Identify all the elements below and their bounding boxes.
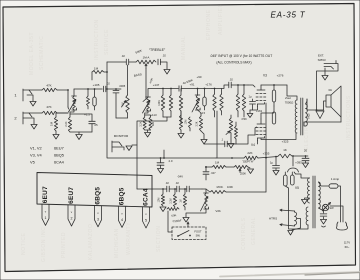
- svg-text:2.2K: 2.2K: [197, 121, 199, 126]
- switch SW: [319, 203, 344, 223]
- screen capsule V4: [272, 106, 275, 124]
- cathode V1b: [145, 111, 151, 117]
- svg-text:MODEL EA-35T: MODEL EA-35T: [29, 32, 35, 75]
- splitter resistor: [235, 118, 248, 144]
- stack resistor b: [220, 89, 223, 116]
- ground at J2: [23, 118, 37, 129]
- svg-text:+1.5: +1.5: [84, 113, 90, 117]
- svg-text:INSTRUCTION: INSTRUCTION: [94, 19, 100, 60]
- treble pot 1M-A: [135, 48, 166, 64]
- svg-text:100K: 100K: [227, 185, 233, 189]
- svg-text:V4: V4: [251, 143, 255, 147]
- V3 plate wire: [261, 85, 297, 100]
- filter cap 1u: [270, 156, 280, 170]
- depth pot: [226, 160, 254, 176]
- tube socket label 6BQ5 (4): [119, 187, 126, 205]
- cathode resistor V1b a: [140, 117, 147, 130]
- trem cap a: [165, 181, 169, 192]
- svg-text:+90: +90: [197, 75, 202, 79]
- resistor 1M trem: [205, 161, 226, 169]
- speaker: [326, 86, 341, 117]
- resistor 1M (tone): [92, 67, 108, 90]
- label +325: [282, 140, 289, 144]
- svg-text:V5: V5: [30, 160, 35, 165]
- svg-text:MANUAL: MANUAL: [181, 36, 187, 60]
- AC plug: [337, 222, 348, 230]
- svg-text:SERVICE: SERVICE: [104, 29, 110, 55]
- V4 plate wire: [261, 113, 296, 140]
- rectifier V5: [284, 155, 300, 190]
- stack resistor a: [213, 88, 216, 117]
- volume pot 500K: [179, 78, 193, 123]
- triode V1a: [68, 96, 77, 112]
- ground under V1a cathode: [76, 135, 82, 140]
- pilot lamp: [322, 204, 328, 210]
- wire: [129, 61, 136, 63]
- svg-text:MICHIGAN: MICHIGAN: [114, 228, 120, 258]
- svg-text:2.2K: 2.2K: [140, 121, 143, 126]
- coupling cap V4 grid: [204, 135, 255, 147]
- cathode wire V1a: [70, 110, 92, 121]
- output transformer primary: [295, 100, 297, 133]
- svg-text:47K: 47K: [46, 105, 51, 109]
- heater CT ground: [288, 219, 301, 236]
- ground under 1M: [53, 135, 59, 140]
- svg-text:5: 5: [145, 219, 147, 223]
- cap 1u: [248, 95, 255, 111]
- triode V1b: [143, 97, 151, 113]
- fuse 1 Amp: [319, 177, 341, 222]
- screen capsule V3: [272, 84, 275, 106]
- svg-text:EXT.: EXT.: [318, 54, 324, 58]
- ground volume: [178, 134, 184, 139]
- svg-text:(4Ω): (4Ω): [308, 113, 311, 118]
- riser to treble line: [106, 62, 108, 72]
- splitter pot: [226, 115, 233, 141]
- label ext spkr: [318, 54, 327, 63]
- svg-text:.02: .02: [121, 54, 125, 58]
- svg-text:GIBSON INC: GIBSON INC: [41, 227, 47, 262]
- svg-text:60~: 60~: [345, 245, 350, 249]
- svg-text:470K: 470K: [241, 118, 247, 121]
- svg-text:“DEPTH”: “DEPTH”: [242, 160, 254, 164]
- socket pointer 2: [68, 205, 75, 226]
- speaker ground: [316, 111, 324, 119]
- label +395: [295, 161, 302, 165]
- svg-text:(ALL CONTROLS MAX): (ALL CONTROLS MAX): [216, 61, 251, 65]
- label V4: [251, 143, 255, 147]
- svg-text:+276: +276: [277, 74, 284, 78]
- resistor 1K: [278, 148, 308, 158]
- coupling cap to output: [212, 78, 248, 89]
- PT HV winding: [308, 178, 310, 203]
- plate wire V1b: [148, 83, 178, 97]
- svg-text:+105: +105: [93, 83, 100, 87]
- ground V2a cathode: [201, 140, 207, 145]
- monitor jack: [112, 141, 124, 152]
- svg-text:+163: +163: [256, 109, 263, 113]
- resistor (stack): [169, 88, 172, 117]
- svg-text:6BQ5: 6BQ5: [95, 187, 102, 205]
- socket pointer 5: [143, 207, 150, 228]
- chassis box: [37, 173, 152, 208]
- note .045 input: [210, 54, 272, 65]
- svg-text:1M: 1M: [50, 121, 54, 126]
- trem cap c: [187, 186, 189, 192]
- svg-text:10M: 10M: [185, 120, 188, 125]
- resistor 47K (J2): [42, 105, 68, 115]
- PT primary: [319, 182, 321, 208]
- cathode resistor V1b b: [149, 117, 155, 130]
- svg-text:.02: .02: [229, 78, 233, 82]
- trem cap b: [175, 181, 179, 192]
- trem wire 2: [179, 188, 187, 190]
- svg-text:V3: V3: [263, 74, 267, 78]
- osc resistor 10M: [158, 188, 165, 206]
- svg-text:1 Amp: 1 Amp: [331, 177, 340, 181]
- ground cap20: [303, 163, 309, 168]
- bottom page-edge shadow: [220, 272, 360, 277]
- B+ dropping resistor 22K: [216, 151, 258, 160]
- tube socket label 6EU7 (2): [68, 187, 75, 204]
- svg-text:1K: 1K: [283, 148, 287, 152]
- trem line wire: [137, 188, 167, 190]
- svg-text:2: 2: [71, 217, 73, 221]
- PT core: [313, 176, 315, 228]
- svg-text:47K: 47K: [46, 84, 51, 88]
- svg-text:7000Ω: 7000Ω: [285, 101, 294, 105]
- riser to MOD loop: [265, 103, 267, 192]
- trem speed pot 50K: [167, 208, 179, 233]
- svg-text:2.0: 2.0: [168, 159, 172, 163]
- svg-text:.02: .02: [175, 181, 179, 185]
- treble line wire: [107, 61, 126, 63]
- cap .047: [203, 166, 216, 180]
- svg-text:25: 25: [94, 123, 98, 127]
- osc resistor 1M: [180, 188, 187, 210]
- ground V1b: [145, 130, 151, 137]
- svg-text:1M-A: 1M-A: [143, 56, 150, 60]
- label +176: [205, 83, 212, 87]
- svg-text:AMPLIFIER: AMPLIFIER: [218, 3, 224, 35]
- ground ext jack: [322, 68, 328, 80]
- V2a cathode chain: [197, 110, 205, 139]
- coupling cap .02 (V1a out): [103, 82, 121, 92]
- capsule V2a: [203, 88, 206, 110]
- svg-text:6BQ5: 6BQ5: [119, 187, 126, 205]
- filter cap 20: [302, 149, 309, 164]
- secondary top wire: [306, 99, 308, 110]
- trem speed labels: [171, 213, 182, 224]
- input jack J1: [14, 89, 42, 101]
- pentode V4: [255, 119, 266, 141]
- V2b cathode: [183, 209, 206, 222]
- trem wire: [169, 188, 177, 190]
- ground monitor: [126, 146, 132, 151]
- label +91: [190, 83, 195, 87]
- capsule component: [93, 89, 96, 110]
- cathode ground bus: [70, 132, 92, 134]
- grid resistor b: [242, 84, 245, 117]
- svg-text:.045” INPUT @ 100 V (for 10 WA: .045” INPUT @ 100 V (for 10 WATTS OUT: [210, 54, 272, 58]
- heater winding 6.3V: [295, 211, 297, 226]
- label +113: [150, 113, 157, 117]
- triode V2a: [192, 88, 206, 115]
- svg-text:4: 4: [121, 218, 123, 222]
- HV center tap ground: [302, 198, 310, 204]
- label V2b: [215, 209, 221, 213]
- svg-text:1M: 1M: [180, 199, 183, 202]
- socket pointer 3: [95, 206, 102, 227]
- tube socket label 6BQ5 (3): [95, 187, 102, 205]
- svg-text:SCHEMATIC: SCHEMATIC: [39, 36, 45, 70]
- svg-text:2.2M: 2.2M: [170, 198, 173, 203]
- svg-text:PRINTED: PRINTED: [61, 232, 67, 258]
- ext speaker jack: [324, 61, 336, 70]
- svg-text:SW: SW: [329, 206, 334, 210]
- input jack J2: [14, 112, 42, 124]
- svg-text:1µ: 1µ: [248, 95, 251, 99]
- triode V2b trem: [201, 189, 209, 211]
- label MONITOR: [114, 134, 129, 138]
- svg-text:CONTROLS: CONTROLS: [241, 217, 247, 250]
- svg-text:6EU7: 6EU7: [42, 186, 49, 203]
- long wire to tremolo: [136, 145, 138, 189]
- svg-text:WARRANTY: WARRANTY: [126, 222, 132, 255]
- junction wire: [56, 89, 69, 113]
- V1a plate lead: [73, 89, 75, 96]
- svg-text:EPIPHONE: EPIPHONE: [206, 9, 212, 40]
- svg-text:V1, V2: V1, V2: [30, 146, 42, 151]
- socket pointer 1: [42, 204, 49, 225]
- splitter ground: [228, 141, 234, 148]
- wire bass bottom: [116, 117, 128, 119]
- OT core: [301, 98, 303, 135]
- label 4ohm: [308, 113, 311, 118]
- svg-text:GENERAL: GENERAL: [251, 217, 257, 245]
- resistor lower: [185, 117, 192, 131]
- label Zout 7000: [285, 96, 294, 105]
- svg-text:1M: 1M: [122, 102, 125, 105]
- V4 cathode wire: [257, 141, 259, 145]
- svg-text:.02: .02: [165, 181, 169, 185]
- cap .02 treble right: [158, 54, 166, 65]
- label HTRS: [269, 217, 277, 221]
- pentode V3: [248, 85, 266, 107]
- plate resistor 100K: [158, 88, 165, 117]
- label -34: [177, 175, 183, 179]
- treble wiper: [145, 64, 154, 99]
- label 117V: [344, 241, 350, 249]
- svg-text:2.2K: 2.2K: [65, 121, 68, 126]
- grid resistor a: [236, 84, 239, 117]
- svg-text:+113: +113: [150, 113, 157, 117]
- footswitch arrow: [187, 222, 189, 227]
- svg-text:+325: +325: [282, 140, 289, 144]
- svg-text:V3, V4: V3, V4: [30, 153, 43, 158]
- label +163: [256, 109, 263, 113]
- svg-text:V5: V5: [295, 186, 299, 190]
- svg-text:+395: +395: [295, 161, 302, 165]
- cap 2.0: [157, 157, 173, 168]
- wire jack to speaker: [317, 64, 339, 111]
- svg-text:+147: +147: [153, 83, 160, 87]
- resistor 1M grid leak: [50, 113, 58, 134]
- B+ distribution wire: [107, 89, 216, 159]
- svg-text:INSTRUCTIONS: INSTRUCTIONS: [346, 95, 352, 140]
- svg-text:6CA4: 6CA4: [54, 160, 65, 165]
- wire down: [216, 111, 218, 158]
- bass pot 1M: [122, 65, 143, 118]
- label +1.5: [84, 113, 90, 117]
- svg-text:.047: .047: [210, 171, 216, 175]
- svg-text:-34V: -34V: [177, 175, 183, 179]
- bypass cap 25: [89, 121, 98, 132]
- label V3 +276: [263, 74, 284, 78]
- svg-text:.02: .02: [162, 54, 166, 58]
- svg-text:SW.: SW.: [196, 234, 201, 238]
- V3 cathode ground: [247, 107, 257, 118]
- speaker to ground wire: [340, 117, 342, 122]
- svg-text:Zout: Zout: [285, 96, 291, 100]
- ground cap1u: [273, 171, 279, 176]
- svg-text:10M: 10M: [158, 198, 161, 203]
- volume lower resistor: [179, 111, 182, 133]
- title EA-35T: [271, 11, 306, 20]
- svg-text:1µ: 1µ: [270, 161, 274, 165]
- svg-text:20: 20: [304, 149, 308, 153]
- label +90: [197, 75, 202, 79]
- svg-text:MOD.: MOD.: [217, 185, 224, 189]
- svg-text:SPKR.: SPKR.: [318, 58, 327, 62]
- svg-text:6EU7: 6EU7: [68, 187, 75, 204]
- svg-text:1M: 1M: [215, 161, 220, 165]
- tube legend: [30, 146, 65, 165]
- V5 filament lead: [285, 186, 308, 229]
- ground at J1: [27, 95, 36, 106]
- wire to ground: [160, 62, 167, 69]
- PT lower winding: [306, 207, 308, 225]
- svg-text:FOOT: FOOT: [194, 230, 202, 234]
- svg-text:820: 820: [152, 121, 155, 126]
- V5 plate to HV top: [294, 172, 309, 178]
- svg-text:+335: +335: [263, 152, 270, 156]
- OT secondary: [306, 104, 308, 126]
- footswitch dashed box: [172, 227, 206, 240]
- tube socket label 6CA4 (5): [143, 188, 150, 206]
- svg-text:SECTION: SECTION: [156, 226, 162, 252]
- resistor 47K (J1): [42, 84, 68, 92]
- coupling cap V2a: [179, 81, 212, 91]
- ground osc: [160, 207, 166, 212]
- svg-text:MONITOR: MONITOR: [114, 134, 129, 138]
- tube socket label 6EU7 (1): [42, 186, 49, 203]
- ground cap 2.0: [158, 169, 164, 174]
- svg-text:+91: +91: [190, 83, 195, 87]
- speaker feed wire: [307, 101, 326, 111]
- svg-text:+176: +176: [205, 83, 212, 87]
- monitor loop wire: [132, 117, 171, 145]
- svg-text:6BQ5: 6BQ5: [54, 153, 64, 158]
- svg-text:HTRS: HTRS: [269, 217, 277, 221]
- ground treble: [164, 70, 170, 75]
- line cap: [320, 211, 327, 219]
- svg-text:3Ω: 3Ω: [328, 88, 332, 92]
- svg-text:3: 3: [97, 217, 99, 221]
- B+ rail: [258, 152, 278, 159]
- svg-text:.0005: .0005: [119, 84, 126, 88]
- cap .0005: [113, 84, 126, 118]
- svg-text:1: 1: [45, 216, 47, 220]
- node +105 rail: [74, 83, 102, 90]
- trem wire 3: [189, 188, 202, 190]
- socket pointer 4: [119, 206, 126, 227]
- ground depth: [248, 169, 254, 174]
- svg-text:6CA4: 6CA4: [143, 188, 150, 206]
- svg-text:KALAMAZOO: KALAMAZOO: [88, 223, 94, 260]
- resistor MOD 100K: [206, 185, 266, 194]
- svg-text:“TREBLE”: “TREBLE”: [149, 48, 166, 52]
- cathode resistor 2.2K: [65, 117, 72, 132]
- cap .02 treble left: [121, 54, 129, 65]
- heater arrows: [280, 209, 295, 226]
- ground line cap: [321, 220, 327, 228]
- svg-text:100K: 100K: [158, 100, 161, 106]
- svg-text:V2b: V2b: [215, 209, 221, 213]
- svg-text:NOTICE: NOTICE: [21, 232, 27, 255]
- osc resistor 2.2M: [170, 188, 177, 207]
- svg-text:EA-35 T: EA-35 T: [271, 11, 306, 20]
- secondary bottom wire: [304, 122, 341, 126]
- svg-text:22K: 22K: [247, 151, 252, 155]
- svg-text:1M: 1M: [94, 67, 99, 71]
- svg-text:250K: 250K: [240, 172, 246, 176]
- plate resistor V1a: [87, 89, 90, 109]
- svg-text:6EU7: 6EU7: [54, 146, 64, 151]
